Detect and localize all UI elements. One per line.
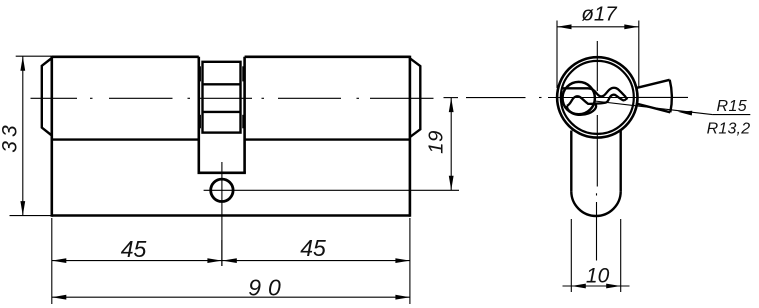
- svg-text:19: 19: [425, 130, 448, 154]
- dimension 45 (right): [222, 218, 410, 304]
- side view inner circle: [561, 61, 634, 134]
- keyway right end cap: [624, 97, 627, 101]
- body outline (front view, 90x33 rectangle): [52, 56, 410, 217]
- dimension 33: [0, 56, 51, 215]
- cam block: [203, 62, 241, 133]
- left end cap (chamfered plug face): [42, 58, 52, 136]
- svg-text:90: 90: [248, 275, 288, 301]
- svg-text:R15: R15: [717, 98, 748, 115]
- cam lobe centerline extension: [638, 96, 688, 98]
- retaining clips (4 short bars beside cam): [200, 66, 243, 128]
- svg-text:45: 45: [300, 235, 326, 261]
- right end cap (chamfered plug face): [410, 58, 420, 137]
- svg-text:10: 10: [586, 264, 610, 287]
- svg-text:ø17: ø17: [581, 3, 618, 26]
- dimension 90: [52, 275, 410, 301]
- dimension ø17: [557, 3, 639, 88]
- dimension 45 (left): [52, 218, 222, 304]
- side view outer circle: [557, 57, 637, 137]
- svg-text:33: 33: [0, 121, 22, 152]
- lower profile rib: [571, 131, 620, 217]
- leader line R15 / R13,2: [595, 98, 751, 138]
- keyway wave top edge: [588, 88, 626, 97]
- keyway wave bottom edge: [567, 95, 624, 106]
- barrel bottom line (round section silhouette): [52, 138, 410, 140]
- fixing screw hole: [211, 179, 233, 201]
- screw hole center cross (vertical): [221, 162, 223, 266]
- dimension 19: [425, 98, 454, 191]
- dimension 10: [563, 219, 630, 292]
- svg-text:45: 45: [121, 236, 147, 262]
- side view vertical centerline: [596, 41, 599, 261]
- cam lobe (fan): [637, 80, 672, 113]
- centerline horizontal axis (front view through side view): [31, 97, 689, 100]
- keyway circle: [563, 82, 595, 114]
- screw hole center cross (horizontal) / 19 extension line: [204, 189, 459, 191]
- cam housing cutout (notch): [198, 57, 246, 173]
- svg-text:R13,2: R13,2: [707, 121, 751, 138]
- keyway chord: [563, 87, 588, 89]
- keyway lower lobe arc: [567, 104, 596, 115]
